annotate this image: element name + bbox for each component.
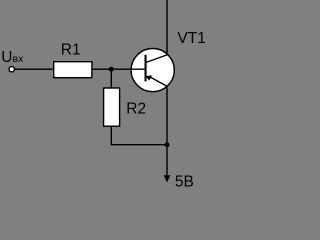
svg-text:R1: R1 [61,42,81,59]
resistor R1 [54,62,92,78]
transistor VT1 collector line [146,55,168,63]
input terminal circle [9,67,14,72]
node A: junction of R1, R2, base [109,67,114,72]
resistor R2 [104,88,120,126]
svg-text:R2: R2 [126,100,146,117]
transistor VT1 emitter line [151,77,168,86]
node B: junction of R2 return and rail [165,142,170,147]
wire: R1 to transistor base bar [92,68,146,70]
wire: collector rail from top edge into circle [166,0,168,55]
wire: emitter rail down to arrow [166,86,168,181]
wire: input terminal to R1 [14,68,55,70]
wire: node down to R2 top [110,69,112,88]
svg-text:5В: 5В [175,173,194,190]
transistor VT1 body circle [131,49,174,92]
transistor VT1 base bar [145,55,147,82]
transistor VT1 emitter arrowhead [146,75,152,80]
wire: R2 bottom down to bottom rail [111,126,167,145]
supply arrowhead pointing down [164,175,171,182]
svg-text:VT1: VT1 [177,30,205,47]
